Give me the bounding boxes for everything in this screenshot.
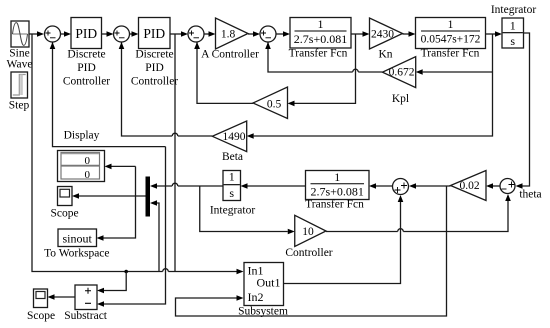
source block Step xyxy=(9,72,30,112)
svg-text:Transfer Fcn: Transfer Fcn xyxy=(421,48,480,60)
wire Mux output to Scope xyxy=(72,193,146,199)
mux Mux xyxy=(146,177,151,217)
svg-text:PID: PID xyxy=(145,62,164,74)
wire branch down to gain Controller 10 xyxy=(200,186,295,234)
wire Transfer Fcn to gain Kn with branch at x=355.5 xyxy=(351,31,370,37)
svg-text:Scope: Scope xyxy=(50,208,78,220)
svg-text:1: 1 xyxy=(448,19,454,31)
wire gain 1.8 to Sum4 xyxy=(248,31,260,37)
svg-text:Wave: Wave xyxy=(7,58,33,70)
wire feedback into Sum1 from display row xyxy=(50,42,166,147)
svg-text:In2: In2 xyxy=(248,290,264,304)
svg-text:Kpl: Kpl xyxy=(392,93,409,105)
junction dot on sine row at x=126 xyxy=(124,270,128,274)
gain Kpl 0.672 xyxy=(383,57,416,105)
wire display row down to Substract minus input xyxy=(97,147,166,307)
svg-text:0.0547s+172: 0.0547s+172 xyxy=(421,34,481,46)
wire branch Sine Wave down the left side to In1 row (hop at x=165.5) xyxy=(32,34,244,274)
svg-text:0.5: 0.5 xyxy=(267,99,282,111)
gain Kn 2430 xyxy=(370,18,403,60)
svg-text:Out1: Out1 xyxy=(257,276,281,290)
svg-text:1490: 1490 xyxy=(223,131,246,143)
block PID2 Discrete PID Controller1 xyxy=(131,18,178,88)
svg-text:Substract: Substract xyxy=(64,310,108,322)
block Integrator 1/s xyxy=(491,4,537,48)
svg-text:Discrete: Discrete xyxy=(67,48,105,60)
svg-text:1: 1 xyxy=(318,17,324,31)
wire Kpl output to Sum4 bottom (hop at x=355.5) xyxy=(265,42,382,72)
svg-text:sinout: sinout xyxy=(63,231,93,245)
block Scope xyxy=(50,187,78,220)
svg-text:Transfer Fcn: Transfer Fcn xyxy=(289,48,348,60)
block Display xyxy=(58,129,105,181)
svg-text:Discrete: Discrete xyxy=(135,48,173,60)
svg-text:2430: 2430 xyxy=(371,29,394,41)
svg-text:1: 1 xyxy=(334,170,340,184)
wire corner down to To Workspace xyxy=(97,166,136,240)
wire theta drop feeding Beta input xyxy=(247,34,493,139)
block Transfer Fcn2 1/(2.7s+0.081) flipped xyxy=(305,170,369,211)
svg-text:Subsystem: Subsystem xyxy=(238,305,288,317)
svg-text:Step: Step xyxy=(9,100,30,112)
gain Beta 1490 xyxy=(212,121,246,163)
wire Sum5 to gain 0.02 xyxy=(486,183,500,189)
wire Sine Wave to Sum1 xyxy=(29,31,44,37)
sum junction Sum3 xyxy=(188,26,204,42)
gain Controller 10 xyxy=(285,215,332,259)
svg-text:Display: Display xyxy=(64,129,100,141)
svg-text:0.02: 0.02 xyxy=(459,180,479,192)
svg-text:s: s xyxy=(510,34,515,48)
svg-text:Controller: Controller xyxy=(285,247,332,259)
wire branch from Transfer Fcn output down into 0.5 input xyxy=(288,34,356,106)
svg-text:Integrator: Integrator xyxy=(210,204,256,216)
svg-text:A Controller: A Controller xyxy=(201,48,259,60)
wire Sum4 to Transfer Fcn xyxy=(276,31,290,37)
wire gain 10 output to Sum5 bottom (hop at x=400.5) xyxy=(326,194,511,232)
block Integrator1 1/s flipped xyxy=(210,170,256,217)
svg-text:1: 1 xyxy=(229,170,235,184)
wire Sum3 to gain A Controller xyxy=(204,31,216,37)
svg-text:0: 0 xyxy=(85,155,91,167)
sum junction Sum1 xyxy=(45,26,61,42)
gain 0.02 xyxy=(451,171,487,201)
wire Integrator output to theta Sum5 (right side drop) xyxy=(516,33,530,189)
block PID1 Discrete PID Controller xyxy=(63,18,110,88)
svg-text:Beta: Beta xyxy=(222,151,243,163)
svg-text:2.7s+0.081: 2.7s+0.081 xyxy=(310,184,363,198)
wire theta drop branch into Kpl input xyxy=(416,69,493,75)
svg-text:Controller: Controller xyxy=(131,75,178,87)
block Subsystem xyxy=(238,263,288,318)
source block Sine Wave xyxy=(7,21,33,70)
svg-text:Scope: Scope xyxy=(27,310,55,322)
svg-text:Kn: Kn xyxy=(378,48,392,60)
svg-text:PID: PID xyxy=(143,26,165,41)
wire Transfer Fcn2 to Integrator1 (flipped) xyxy=(241,183,306,189)
svg-text:Controller: Controller xyxy=(63,75,110,87)
wire Sum1 to PID1 xyxy=(61,31,72,37)
svg-text:2.7s+0.081: 2.7s+0.081 xyxy=(294,32,347,46)
wire Beta output to Sum2 bottom (hop at x=175) xyxy=(119,42,213,136)
wire PID1 to Sum2 xyxy=(102,31,114,37)
sum junction Sum4 xyxy=(260,26,276,42)
wire branch to Substract plus input xyxy=(97,272,126,294)
wire 0.5 output to Sum3 bottom xyxy=(194,42,253,103)
sum junction Sum5 theta xyxy=(500,179,542,201)
wire Sum6 to Transfer Fcn2 xyxy=(369,183,393,189)
svg-text:1.8: 1.8 xyxy=(221,29,236,41)
sum junction Sum6 xyxy=(393,179,409,195)
svg-text:s: s xyxy=(229,186,234,200)
svg-text:PID: PID xyxy=(75,26,97,41)
block Substract xyxy=(64,285,108,322)
wire branch theta down to bottom row feeding In2 xyxy=(176,186,447,316)
wire Integrator1 output to Mux input 1 (branch at 199.75, hop at 175) xyxy=(150,183,223,189)
wire into Display from right xyxy=(105,164,136,170)
wire Sum2 to PID2 xyxy=(130,31,139,37)
block Transfer Fcn1 1/(0.0547s+172) xyxy=(416,18,486,60)
svg-text:To Workspace: To Workspace xyxy=(44,248,109,260)
block Scope1 xyxy=(27,289,55,322)
svg-text:1: 1 xyxy=(510,19,516,33)
svg-text:Integrator: Integrator xyxy=(491,4,537,16)
svg-text:PID: PID xyxy=(77,62,96,74)
sum junction Sum2 xyxy=(114,26,130,42)
wire gain Kn to Transfer Fcn1 xyxy=(403,31,416,37)
gain A Controller 1.8 xyxy=(201,18,259,60)
svg-text:0: 0 xyxy=(85,169,91,181)
block Transfer Fcn 1/(2.7s+0.081) xyxy=(289,17,351,59)
svg-text:Transfer Fcn: Transfer Fcn xyxy=(305,199,364,211)
svg-text:10: 10 xyxy=(302,226,314,238)
wire Transfer Fcn1 to Integrator with branch at x=492.5 xyxy=(486,31,503,37)
svg-text:0.672: 0.672 xyxy=(389,67,415,79)
wire branch sine row up to Mux input 2 xyxy=(150,200,159,271)
wire branch PID2 output down to sine row xyxy=(174,34,176,272)
svg-text:theta: theta xyxy=(519,188,541,200)
block To Workspace sinout xyxy=(44,229,109,260)
gain 0.5 xyxy=(253,87,288,119)
wire PID2 to Sum3 with branch node at x=175 xyxy=(170,31,188,37)
wire Subsystem Out1 up to Sum6 bottom xyxy=(284,195,404,284)
wire 0.02 output to Sum6 with branch at x=446.5 xyxy=(409,183,451,189)
wire Substract output to Scope1 xyxy=(48,294,76,300)
